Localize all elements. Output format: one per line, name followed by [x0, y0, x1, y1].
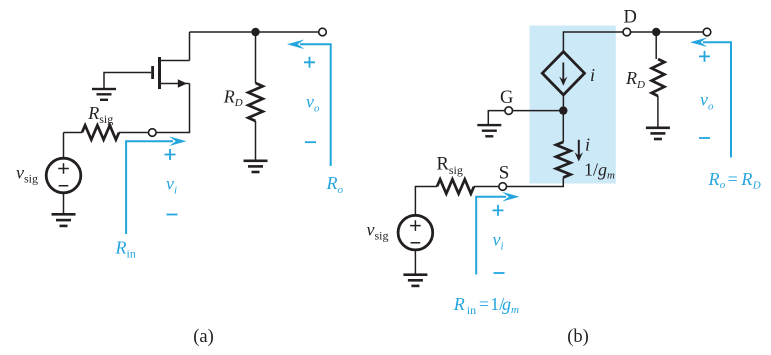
- input node terminal (a): [149, 129, 157, 137]
- label minus (v_o b): [699, 137, 710, 139]
- wire v_sig bottom lead (a): [63, 193, 65, 213]
- T-model highlight region: [530, 26, 616, 184]
- wire input node to source corner (a): [156, 84, 189, 133]
- resistor 1/g_m (b): [556, 142, 571, 178]
- current arrow i through 1/gm (b): [575, 140, 583, 162]
- svg-text:vsig: vsig: [16, 162, 38, 185]
- R_in indicator arrow (a): [126, 136, 186, 234]
- label minus (v_i a): [167, 214, 178, 216]
- output terminal (a): [319, 28, 327, 36]
- wire node to 1/gm resistor (b): [562, 111, 564, 142]
- ground below R_D (a): [244, 160, 268, 174]
- svg-text:G: G: [500, 88, 513, 108]
- wire v_sig top lead (a): [63, 133, 65, 159]
- svg-text:(a): (a): [193, 327, 214, 347]
- dependent current source diamond (b): [542, 52, 584, 95]
- wire R_D bottom lead (b): [657, 96, 659, 127]
- svg-text:vi: vi: [493, 230, 504, 253]
- wire diamond top to D (b): [563, 32, 622, 52]
- svg-text:RD: RD: [625, 68, 645, 91]
- terminal S (b): [499, 183, 507, 191]
- ground below R_D (b): [646, 127, 670, 141]
- svg-text:vsig: vsig: [367, 219, 389, 242]
- label plus (v_o b): [699, 51, 710, 62]
- terminal D (b): [623, 28, 631, 36]
- label plus (v_i a): [165, 149, 176, 160]
- R_in indicator arrow (b): [476, 192, 519, 275]
- label plus (v_i b): [493, 205, 504, 216]
- ground below v_sig (a): [52, 213, 76, 227]
- junction dot below diamond (b): [559, 106, 567, 114]
- MOSFET Q (a): [151, 57, 189, 89]
- top rail wire (a): [190, 31, 319, 33]
- svg-text:Ro=RD: Ro=RD: [708, 169, 761, 192]
- wire S to R_sig (b): [474, 186, 499, 188]
- svg-text:vo: vo: [306, 92, 320, 115]
- svg-text:Rsig: Rsig: [87, 103, 113, 126]
- wire gate to ground (a): [104, 73, 151, 89]
- svg-text:Rin=1/gm: Rin=1/gm: [453, 294, 519, 317]
- svg-text:RD: RD: [223, 86, 243, 109]
- ground below v_sig (b): [403, 273, 427, 287]
- wire diamond bottom to node (b): [562, 95, 564, 111]
- voltage source v_sig (b): [398, 215, 433, 250]
- ground at G (b): [477, 124, 501, 138]
- terminal G (b): [505, 107, 513, 115]
- wire R_D top lead (a): [255, 32, 257, 83]
- svg-text:i: i: [585, 135, 590, 155]
- svg-text:Rin: Rin: [115, 238, 136, 261]
- output terminal (b): [703, 28, 711, 36]
- resistor R_D (a): [248, 83, 263, 121]
- label minus (v_i b): [494, 272, 505, 274]
- svg-text:vi: vi: [166, 174, 177, 197]
- label plus (v_o a): [304, 57, 315, 68]
- wire G to ground (b): [488, 111, 504, 124]
- svg-text:i: i: [590, 65, 595, 85]
- svg-text:(b): (b): [567, 327, 589, 347]
- wire R_D top lead (b): [655, 32, 657, 59]
- wire R_sig to v_sig (b): [415, 187, 437, 215]
- svg-text:D: D: [624, 7, 637, 27]
- resistor R_sig (b): [437, 179, 474, 193]
- wire v_sig to ground (b): [414, 250, 416, 274]
- ground at gate (a): [92, 88, 116, 101]
- wire v_sig to R_sig (a): [64, 132, 83, 134]
- resistor R_sig (a): [82, 125, 148, 139]
- wire R_D bottom lead (a): [255, 121, 257, 160]
- wire drain to top rail (a): [189, 32, 191, 61]
- wire junction to output terminal (b): [656, 31, 703, 33]
- junction dot at R_D top (b): [652, 28, 660, 36]
- voltage source v_sig (a): [46, 158, 81, 193]
- wire D to junction (b): [631, 31, 652, 33]
- junction dot (a): [251, 28, 259, 36]
- svg-text:Rsig: Rsig: [437, 155, 463, 177]
- svg-text:S: S: [499, 163, 510, 184]
- svg-text:Ro: Ro: [326, 173, 344, 196]
- resistor R_D (b): [652, 59, 665, 96]
- svg-text:vo: vo: [700, 90, 714, 113]
- R_o indicator arrow (b): [690, 37, 731, 157]
- label minus (v_o a): [305, 141, 316, 143]
- R_o indicator arrow (a): [287, 40, 331, 167]
- wire node to G terminal (b): [513, 110, 563, 112]
- wire 1/gm to S corner (b): [507, 178, 563, 187]
